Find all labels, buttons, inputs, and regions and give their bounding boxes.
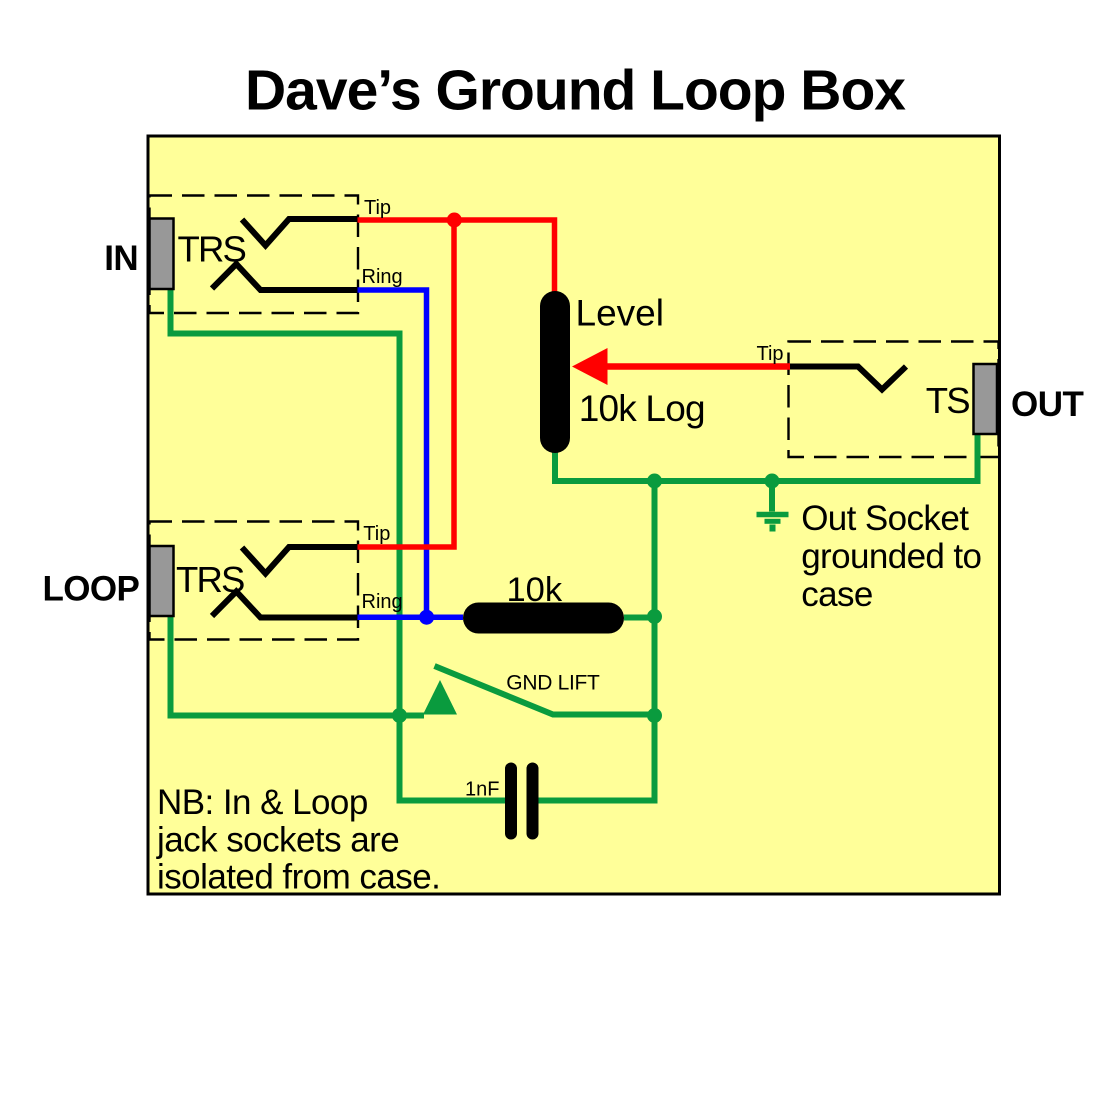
svg-text:TS: TS [926, 380, 969, 421]
svg-text:Out Socket: Out Socket [801, 499, 969, 538]
svg-text:Dave’s Ground Loop Box: Dave’s Ground Loop Box [245, 59, 906, 123]
svg-text:NB: In & Loop: NB: In & Loop [157, 783, 368, 822]
svg-text:Ring: Ring [362, 266, 403, 288]
jack J3 tip contact [790, 367, 906, 390]
svg-text:Level: Level [576, 292, 664, 333]
wire: red IN tip to pot top [358, 220, 555, 292]
svg-text:TRS: TRS [176, 559, 244, 600]
switch SW1 pole triangle [423, 680, 457, 715]
svg-text:isolated from case.: isolated from case. [157, 858, 440, 897]
svg-text:jack sockets are: jack sockets are [156, 820, 399, 859]
wire: green LOOP sleeve down to switch node [171, 614, 400, 716]
jack J1 ring contact [212, 264, 358, 290]
jack J2 LOOP connector body [150, 546, 174, 616]
node: green junction switch left [392, 708, 407, 723]
wire: green stub node A to switch triangle [400, 713, 425, 719]
jack J1 IN dashed outline [150, 196, 359, 314]
wire: blue LOOP ring to resistor [358, 615, 464, 621]
wire: green pot bottom to OUT sleeve [555, 434, 978, 481]
wire: red junction down to LOOP tip [358, 220, 455, 547]
jack J1 IN connector body [150, 219, 174, 290]
svg-text:TRS: TRS [178, 228, 246, 269]
svg-text:IN: IN [104, 239, 138, 278]
capacitor C1 plate right [527, 763, 539, 840]
node: green junction pot-bottom / resistor bus [647, 474, 662, 489]
potentiometer VR1 body [540, 291, 570, 453]
node: green junction ground branch [765, 474, 780, 489]
jack J2 LOOP dashed outline [150, 522, 359, 640]
jack J1 tip contact [242, 219, 358, 246]
ground symbol [757, 481, 789, 532]
switch SW1 GND LIFT arm [435, 666, 655, 715]
svg-text:case: case [801, 575, 873, 614]
svg-text:LOOP: LOOP [43, 570, 140, 609]
resistor R1 body [463, 603, 624, 634]
wire: blue IN ring down [358, 290, 427, 617]
wire: green vertical bus resistor/switch/cap right [538, 481, 655, 801]
jack J3 OUT dashed outline [789, 342, 999, 458]
node: green junction resistor right [647, 609, 662, 624]
svg-text:Tip: Tip [757, 343, 784, 365]
case (enclosure box) [148, 136, 1000, 894]
svg-text:Tip: Tip [364, 197, 391, 219]
svg-text:GND LIFT: GND LIFT [506, 672, 600, 695]
svg-text:1nF: 1nF [465, 779, 499, 801]
wire: red wiper arrow shaft from OUT tip [605, 363, 790, 370]
capacitor C1 plate left [505, 763, 517, 840]
node: blue junction dot [419, 610, 434, 625]
svg-text:grounded to: grounded to [801, 537, 981, 576]
node: green junction switch right [647, 708, 662, 723]
jack J2 ring contact [212, 592, 358, 618]
jack J2 tip contact [242, 547, 358, 574]
node: red junction dot [447, 213, 462, 228]
svg-text:Ring: Ring [362, 591, 403, 613]
wire: green resistor right lead [624, 615, 655, 621]
wiper arrowhead pointing at pot [572, 348, 608, 385]
wire: green IN sleeve down and across to switch node [171, 288, 506, 801]
svg-text:10k Log: 10k Log [579, 388, 705, 429]
svg-text:Tip: Tip [363, 523, 390, 545]
jack J3 OUT connector body [974, 364, 998, 434]
svg-text:OUT: OUT [1011, 385, 1084, 424]
svg-text:10k: 10k [507, 571, 563, 609]
